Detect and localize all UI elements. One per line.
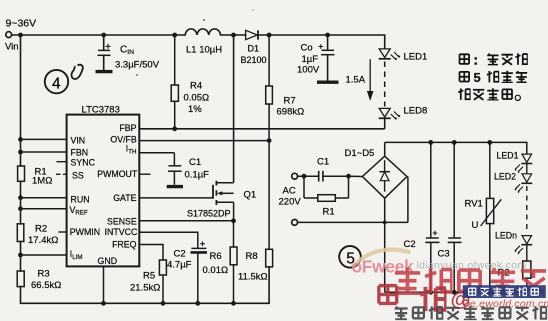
- svg-text:S17852DP: S17852DP: [187, 209, 231, 219]
- wire fig5 bottom rail: [385, 291, 527, 293]
- varistor RV1: [481, 142, 502, 292]
- LED1 (fig5): [515, 154, 533, 173]
- watermark navy box eeworld: [463, 285, 546, 298]
- svg-text:U: U: [472, 220, 479, 231]
- svg-text:R5: R5: [143, 271, 155, 282]
- wire dashed fig5 LED string: [526, 186, 528, 233]
- wire dashed LED string: [384, 62, 386, 107]
- circled figure number 5: [339, 246, 361, 268]
- wire FBN pin: [21, 151, 67, 153]
- wire top input rail segment 1: [12, 34, 186, 36]
- svg-text:VIN: VIN: [71, 135, 86, 145]
- wire FREQ pin to R5: [139, 245, 163, 261]
- LED2 (fig5): [515, 174, 533, 193]
- junction OV/FB node: [267, 138, 272, 143]
- svg-text:OV/FB: OV/FB: [110, 135, 137, 145]
- wire SENSE pin: [139, 220, 233, 222]
- LEDn (fig5): [515, 236, 533, 255]
- svg-text:3.3µF/50V: 3.3µF/50V: [115, 60, 160, 71]
- svg-text:9~36V: 9~36V: [6, 18, 37, 30]
- stub PWMOUT pin: [139, 173, 150, 175]
- bridge rectifier D1~D5: [362, 156, 407, 198]
- svg-text:R8: R8: [246, 251, 258, 262]
- junctions on bottom rail: [101, 301, 236, 306]
- capacitor Co: [317, 35, 339, 82]
- svg-text:PWMIN: PWMIN: [70, 227, 100, 237]
- svg-text:Q1: Q1: [244, 190, 257, 201]
- svg-text:R6: R6: [210, 251, 222, 262]
- svg-text:1µF: 1µF: [302, 54, 319, 65]
- junctions on left rail: [18, 137, 23, 257]
- svg-text:220V: 220V: [279, 197, 302, 208]
- svg-text:C2: C2: [404, 239, 416, 250]
- watermark red characters row 2: [379, 286, 446, 312]
- junction Co: [325, 33, 330, 38]
- wire bridge bottom to fig5 bottom rail: [384, 198, 386, 292]
- svg-text:1%: 1%: [188, 104, 202, 115]
- svg-text:R1: R1: [323, 207, 335, 218]
- wire VREF pin: [21, 208, 67, 210]
- wire output corner down to LED1: [384, 35, 386, 49]
- svg-text:R7: R7: [284, 96, 296, 107]
- svg-text:SENSE: SENSE: [107, 217, 137, 227]
- AC terminal 2: [292, 220, 298, 226]
- wire bridge right vertex down: [407, 177, 409, 223]
- svg-text:0.01Ω: 0.01Ω: [203, 265, 229, 276]
- svg-text:17.4kΩ: 17.4kΩ: [28, 235, 58, 246]
- svg-text:L1 10µH: L1 10µH: [186, 45, 222, 56]
- resistor R2 (fig5): [523, 245, 531, 293]
- AC terminal 1: [292, 173, 298, 179]
- svg-text:C1: C1: [189, 157, 201, 168]
- wire top rail segment 2 (L1 to D1): [221, 34, 246, 36]
- wire FBP / LED return line: [139, 128, 384, 130]
- svg-text:GATE: GATE: [113, 193, 136, 203]
- wire GND pin down: [103, 266, 105, 303]
- svg-text:R2: R2: [35, 224, 47, 235]
- wire INTVCC pin to C2: [139, 232, 198, 248]
- wire AC terminal2 to bridge right vertex: [298, 221, 408, 223]
- svg-text:FBP: FBP: [119, 123, 136, 133]
- svg-text:21.5kΩ: 21.5kΩ: [130, 283, 160, 294]
- diode D1: [246, 30, 258, 39]
- wire left rail segment D to bottom rail: [21, 267, 270, 303]
- wire RUN pin: [21, 197, 67, 199]
- resistor R1 (AC): [304, 176, 349, 201]
- wire OV/FB pin: [139, 140, 269, 142]
- wire left rail segment C: [20, 242, 22, 272]
- hand-drawn scribble loop: [72, 65, 83, 79]
- wire VIN pin: [21, 138, 67, 140]
- svg-text:LED8: LED8: [404, 106, 428, 117]
- svg-text:698kΩ: 698kΩ: [277, 107, 305, 118]
- wire GATE pin: [139, 197, 213, 199]
- capacitor C3 (fig5): [448, 142, 462, 292]
- svg-text:LED1: LED1: [497, 151, 519, 161]
- op IC U1 LTC3783 box: [67, 115, 140, 267]
- svg-text:FREQ: FREQ: [112, 239, 137, 249]
- junction top rail x20: [18, 33, 23, 38]
- svg-text:LED1: LED1: [404, 52, 428, 63]
- svg-text:Co: Co: [301, 43, 313, 54]
- wire top rail segment 3 (D1 to output corner): [259, 34, 385, 36]
- resistor R6: [230, 221, 237, 303]
- wire LED8 down to return: [384, 118, 386, 129]
- svg-text:5: 5: [474, 70, 481, 85]
- junction CIN: [101, 33, 106, 38]
- capacitor C2 (fig5): [425, 142, 439, 292]
- stub PWMIN pin: [59, 231, 67, 233]
- wire ILIM pin: [21, 254, 67, 256]
- wire LED1-LED2: [526, 164, 528, 174]
- svg-text:FBN: FBN: [71, 147, 89, 157]
- svg-text:4: 4: [52, 76, 61, 93]
- wire left rail segment A: [20, 35, 22, 166]
- stub SYNC pin: [57, 161, 67, 163]
- wire bridge top to fig5 rail: [384, 142, 386, 156]
- capacitor C2 4.7uF: [191, 241, 208, 303]
- capacitor C1 (AC): [298, 171, 349, 182]
- junction R4 bottom on FBP line: [172, 126, 177, 131]
- junction R4 top: [172, 33, 177, 38]
- junction D1 cathode / R7: [267, 33, 272, 38]
- note text line 3 (Chinese): [458, 88, 520, 100]
- junction AC2 node: [383, 221, 387, 225]
- IC pin labels left: [70, 135, 118, 265]
- circled figure number 4: [45, 70, 68, 93]
- resistor R4: [171, 35, 178, 129]
- resistor R1: [18, 166, 25, 181]
- junction AC node right: [346, 174, 351, 179]
- svg-text:D1~D5: D1~D5: [345, 148, 375, 159]
- svg-text:Vin: Vin: [5, 42, 19, 53]
- svg-text:100V: 100V: [297, 65, 320, 76]
- svg-text:4.7µF: 4.7µF: [167, 260, 192, 271]
- resistor R3: [17, 271, 24, 287]
- svg-text:11.5kΩ: 11.5kΩ: [238, 272, 268, 283]
- svg-text:B2100: B2100: [241, 55, 267, 65]
- stub SS pin: [56, 173, 66, 175]
- junctions fig5 bottom rail: [428, 290, 492, 295]
- junction AC node left: [302, 174, 307, 179]
- resistor R2: [17, 224, 24, 242]
- svg-text:RV1: RV1: [465, 199, 483, 210]
- note text line 2 (Chinese): [460, 70, 528, 85]
- junction Q1 drain: [231, 33, 236, 38]
- svg-text:C1: C1: [317, 157, 329, 168]
- svg-text:C2: C2: [174, 249, 186, 260]
- watermark eeworld url: [463, 300, 469, 306]
- current arrow 1.5A: [367, 59, 374, 101]
- note text line 1 (Chinese): [460, 53, 528, 65]
- svg-text:GND: GND: [98, 256, 118, 266]
- inductor L1: [185, 29, 220, 35]
- svg-text:AC: AC: [283, 186, 296, 197]
- svg-text:RUN: RUN: [71, 194, 90, 204]
- junction SENSE node: [231, 218, 236, 223]
- svg-text:0.05Ω: 0.05Ω: [184, 93, 210, 104]
- capacitor C1 0.1uF: [167, 153, 183, 187]
- svg-text:SS: SS: [72, 171, 84, 181]
- svg-text:SYNC: SYNC: [71, 158, 96, 168]
- svg-text:LEDn: LEDn: [495, 231, 517, 241]
- capacitor CIN: [96, 35, 113, 72]
- svg-text:C3: C3: [438, 249, 450, 260]
- svg-text:R4: R4: [190, 81, 202, 92]
- svg-text:LTC3783: LTC3783: [82, 105, 120, 116]
- input terminal Vin: [6, 32, 12, 38]
- transistor Q1 MOSFET: [213, 35, 234, 221]
- watermark bottom gray characters: [395, 306, 547, 320]
- svg-text:D1: D1: [248, 44, 260, 54]
- svg-text:INTVCC: INTVCC: [105, 227, 138, 237]
- svg-text:0.1µF: 0.1µF: [185, 170, 210, 181]
- svg-text:LED2: LED2: [494, 172, 516, 182]
- wire ITH pin to C1: [139, 152, 174, 154]
- watermark big red characters: [395, 268, 546, 294]
- paper specks: [203, 19, 205, 21]
- wire fig5 top rail: [385, 142, 527, 154]
- bridge inner diode: [379, 160, 390, 192]
- wire AC node to bridge: [349, 175, 363, 177]
- svg-text:1MΩ: 1MΩ: [32, 176, 52, 187]
- watermark swoosh: [353, 250, 411, 267]
- wire left rail segment B: [20, 181, 22, 224]
- resistor R5: [159, 260, 166, 303]
- LED1 (top string): [379, 49, 401, 60]
- svg-text:R3: R3: [38, 269, 50, 280]
- svg-text:1.5A: 1.5A: [346, 75, 366, 86]
- svg-text:PWMOUT: PWMOUT: [97, 169, 138, 179]
- IC pin labels right: [97, 123, 138, 250]
- LED8 (top string): [379, 108, 401, 119]
- svg-text:66.5kΩ: 66.5kΩ: [31, 280, 61, 291]
- resistor R7 with divider wire: [266, 35, 273, 267]
- junctions fig5 top rail: [428, 140, 492, 145]
